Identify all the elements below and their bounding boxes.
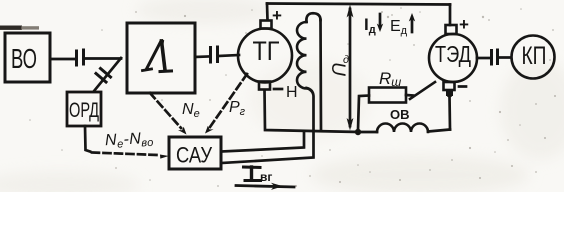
- svg-text:ТГ: ТГ: [253, 36, 280, 66]
- svg-text:ОРД: ОРД: [69, 99, 99, 122]
- svg-text:+: +: [459, 15, 469, 34]
- svg-text:КП: КП: [522, 42, 547, 70]
- svg-text:ТЭД: ТЭД: [435, 41, 471, 67]
- svg-text:САУ: САУ: [176, 143, 213, 168]
- svg-text:Н: Н: [286, 84, 298, 101]
- svg-text:вг: вг: [260, 170, 272, 184]
- svg-text:ОВ: ОВ: [390, 107, 410, 122]
- svg-text:д: д: [343, 54, 349, 66]
- svg-text:ВО: ВО: [11, 43, 37, 74]
- svg-text:+: +: [272, 6, 282, 25]
